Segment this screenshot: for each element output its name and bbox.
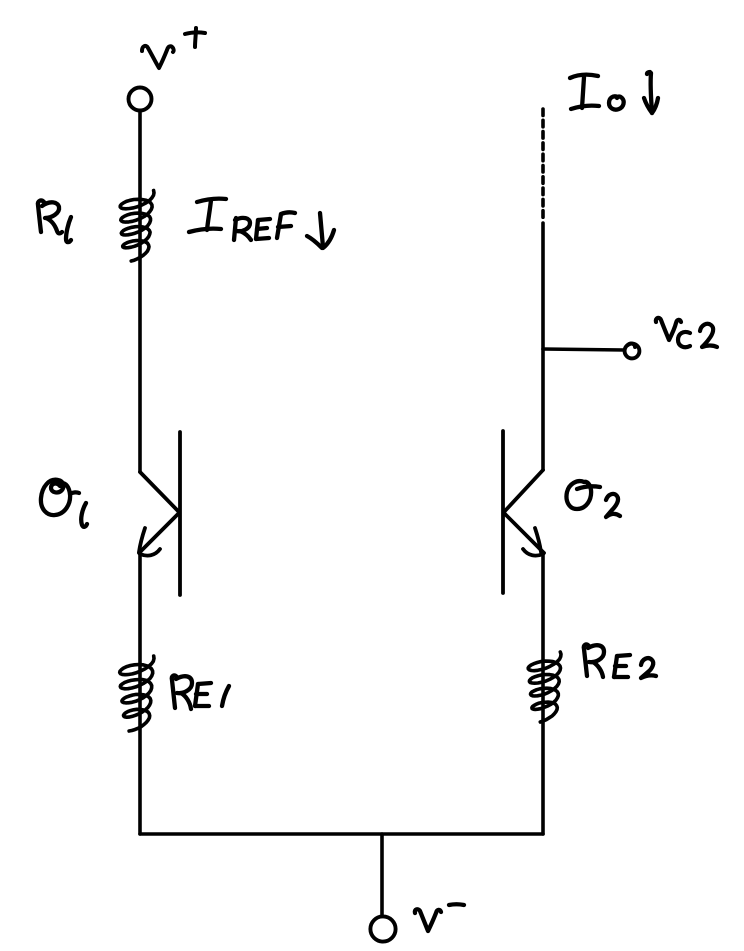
wire: collector to Q2 — [541, 223, 545, 470]
wire: Q1 emitter to bottom rail — [138, 554, 142, 834]
resistor R1 — [120, 191, 154, 262]
wire: dashed collector lead (Io) — [541, 109, 545, 220]
label V+ — [142, 28, 205, 68]
label Q2 — [566, 481, 620, 517]
wire: V+ terminal to Q1 collector — [138, 111, 142, 472]
resistor RE2 — [528, 652, 561, 722]
label Io with arrow — [570, 72, 658, 113]
label IREF with arrow — [189, 199, 334, 248]
wire: bottom rail — [140, 832, 543, 836]
transistor Q2 — [503, 431, 544, 593]
wire: branch to VC2 terminal — [543, 349, 624, 350]
wire: stub to V- terminal — [380, 834, 384, 916]
label VC2 — [656, 318, 717, 347]
resistor RE1 — [120, 656, 154, 731]
label R1 — [38, 201, 71, 243]
label V- — [415, 904, 464, 931]
terminal V+ — [129, 88, 152, 111]
label Q1 — [41, 480, 87, 527]
wire: Q2 emitter to bottom rail — [541, 554, 545, 834]
transistor Q1 — [139, 432, 180, 595]
label RE1 — [172, 676, 229, 709]
terminal V- — [370, 916, 395, 941]
terminal VC2 — [625, 344, 640, 359]
label RE2 — [584, 645, 656, 678]
